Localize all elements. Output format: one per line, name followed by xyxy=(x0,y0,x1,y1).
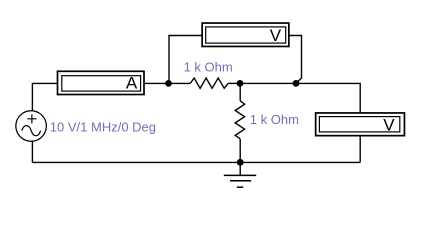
wire: node C down to resistor R2 top lead xyxy=(239,83,241,100)
junction node D xyxy=(237,159,244,166)
wire: source top to corner up to ammeter xyxy=(32,83,57,111)
ac source V1 xyxy=(16,111,46,142)
junction node A xyxy=(165,80,172,87)
voltmeter M2 xyxy=(202,23,289,46)
wire: node C to node B xyxy=(240,82,296,84)
ground xyxy=(224,162,256,187)
resistor R2 zigzag xyxy=(235,101,244,139)
wire: bottom rail xyxy=(32,161,360,163)
wire: node A to resistor R1 left lead xyxy=(169,82,191,84)
svg-text:V: V xyxy=(383,115,395,134)
wire: ammeter right to node A xyxy=(145,82,169,84)
resistor R1 zigzag xyxy=(190,78,228,88)
svg-text:V: V xyxy=(270,26,282,45)
wire: node A up and right to voltmeter M2 left pin xyxy=(169,36,202,84)
svg-text:10 V/1 MHz/0 Deg: 10 V/1 MHz/0 Deg xyxy=(50,119,156,134)
junction node C xyxy=(237,80,244,87)
svg-text:1 k Ohm: 1 k Ohm xyxy=(184,59,233,74)
junction node B xyxy=(293,80,300,87)
wire: R1 right lead to node C xyxy=(228,82,240,84)
svg-text:1 k Ohm: 1 k Ohm xyxy=(250,112,299,127)
ammeter M1 xyxy=(58,71,145,94)
wire: voltmeter M3 bottom pin down to bottom rail xyxy=(359,136,361,163)
svg-text:A: A xyxy=(126,74,138,93)
voltmeter M3 xyxy=(316,113,405,136)
wire: node B right and down to voltmeter M3 top pin xyxy=(296,83,360,113)
wire: R2 bottom lead to ground node D xyxy=(239,139,241,162)
wire: voltmeter M2 right pin down to node B xyxy=(290,36,302,84)
wire: bottom rail up to source bottom xyxy=(31,141,33,162)
